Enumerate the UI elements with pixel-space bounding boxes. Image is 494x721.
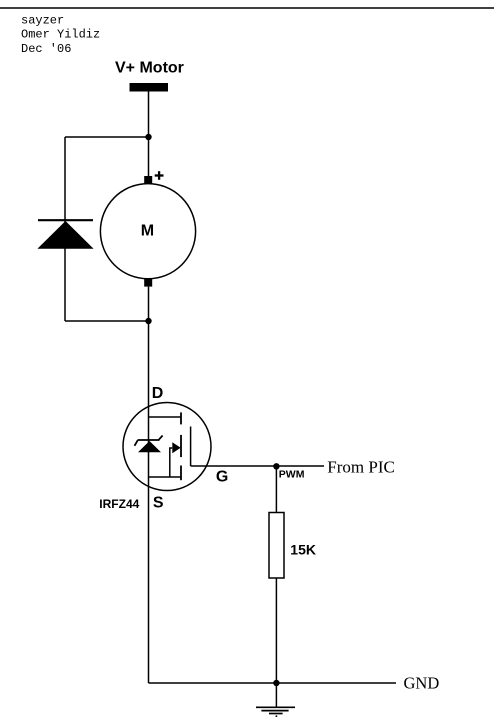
wire diode anode to junction bbox=[65, 320, 149, 322]
svg-text:G: G bbox=[216, 469, 228, 486]
ground symbol bbox=[256, 707, 295, 713]
top border line bbox=[0, 7, 494, 9]
svg-text:PWM: PWM bbox=[279, 469, 305, 481]
wire diode branch vertical bbox=[64, 137, 66, 321]
plus sign bbox=[155, 171, 164, 180]
wire gate to PWM node and From PIC bbox=[191, 465, 324, 467]
diode D1 flyback (triangle) bbox=[37, 221, 93, 249]
power rail symbol V+ bbox=[130, 83, 169, 92]
svg-text:From PIC: From PIC bbox=[327, 458, 395, 477]
motor + terminal square bbox=[144, 176, 152, 184]
wire V+ bar to motor bbox=[148, 92, 150, 177]
svg-text:S: S bbox=[153, 495, 164, 512]
resistor R1 box bbox=[269, 513, 284, 579]
mosfet body diode zener bar bbox=[135, 436, 163, 446]
mosfet drain horizontal bar bbox=[149, 416, 182, 418]
node junction top bbox=[145, 134, 151, 140]
mosfet body diode triangle bbox=[138, 441, 161, 452]
diode D1 flyback (cathode bar) bbox=[38, 219, 93, 221]
ground symbol stem bbox=[275, 683, 277, 707]
wire motor to mosfet drain to source rail bbox=[148, 287, 150, 683]
svg-text:sayzer: sayzer bbox=[21, 13, 64, 27]
node PWM junction bbox=[273, 463, 279, 469]
svg-text:M: M bbox=[141, 223, 154, 240]
svg-text:Omer Yildiz: Omer Yildiz bbox=[21, 28, 100, 42]
mosfet gate plate bbox=[190, 427, 192, 467]
mosfet source horizontal bar bbox=[149, 476, 182, 478]
ground symbol dot bbox=[276, 715, 278, 717]
svg-text:D: D bbox=[152, 385, 164, 402]
mosfet substrate connection bbox=[170, 448, 173, 477]
svg-text:15K: 15K bbox=[290, 541, 316, 557]
svg-text:IRFZ44: IRFZ44 bbox=[99, 497, 139, 511]
svg-text:Dec '06: Dec '06 bbox=[21, 42, 71, 56]
motor - terminal square bbox=[144, 279, 152, 287]
node junction below motor bbox=[145, 318, 151, 324]
transistor Q1 IRFZ44 body circle bbox=[123, 403, 211, 491]
wire ground rail bbox=[149, 682, 397, 684]
wire PWM node to resistor bbox=[275, 466, 277, 512]
mosfet channel segments bbox=[180, 412, 182, 480]
wire junction to diode cathode branch bbox=[65, 136, 149, 138]
mosfet substrate arrow bbox=[172, 442, 180, 453]
title text sayzer / Omer Yildiz / Dec '06 bbox=[21, 13, 100, 56]
node ground junction bbox=[273, 680, 279, 686]
motor M circle bbox=[100, 184, 195, 279]
svg-text:V+ Motor: V+ Motor bbox=[115, 60, 184, 77]
svg-text:GND: GND bbox=[404, 674, 440, 693]
wire resistor to ground rail bbox=[275, 578, 277, 683]
